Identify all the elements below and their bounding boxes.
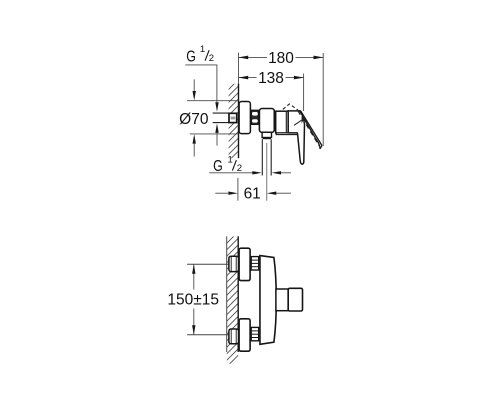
upper union nut [251,257,259,270]
mixer body (bottom view) [260,256,276,345]
cartridge ring [273,110,275,131]
dimension 180 [239,53,324,146]
upper hex nut [229,256,239,271]
escutcheon flange (top view) [239,102,250,134]
dimension 150+-15 [193,264,195,289]
outlet thread lines [261,139,263,175]
wall hatching (top view) [224,76,242,166]
supply line upper [187,263,229,265]
dimension 61 [237,178,239,201]
mixer body (top view) [259,109,274,133]
lower hex nut [229,329,239,344]
lower escutcheon [239,319,250,351]
handle hub (bottom view) [276,289,288,311]
upper escutcheon [239,248,250,280]
lever paddle [298,119,305,164]
svg-text:138: 138 [258,70,284,87]
cap section [276,111,289,133]
svg-text:180: 180 [268,50,294,67]
dashed lever raised position [283,104,298,110]
outlet centerline [266,143,268,201]
dimension 138 [239,74,304,112]
svg-text:1: 1 [228,154,233,165]
supply line lower [187,334,229,336]
lower union nut [251,327,259,340]
svg-text:150±15: 150±15 [167,291,219,308]
svg-text:2: 2 [237,163,242,174]
supply pipe in wall [213,112,230,114]
handle hub [288,111,302,133]
up arrow against pipe underside [215,123,218,132]
svg-text:1: 1 [200,44,205,55]
svg-text:Ø70: Ø70 [179,111,209,128]
lever arm [300,110,322,145]
wall hatching (bottom view) [222,227,243,372]
wall face line (top view) [238,84,240,159]
svg-text:61: 61 [244,186,261,203]
handle knob (bottom view) [288,288,302,311]
svg-text:G: G [213,158,223,175]
wall edges (bottom view) [226,236,228,352]
union nut (top view) [251,110,258,124]
svg-text:2: 2 [209,53,214,64]
svg-text:G: G [186,48,196,65]
lip under cap/hub [276,133,297,135]
threaded nipple [229,113,237,122]
outlet stub [262,132,271,137]
dimension D70 [187,79,239,156]
